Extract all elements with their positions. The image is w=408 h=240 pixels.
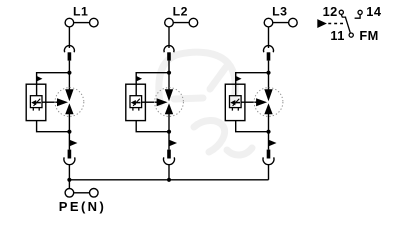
spark gap left arrow L1 [57, 98, 68, 106]
wire L1 top [68, 27, 70, 48]
wire from disconnect box bottom L3 [236, 121, 269, 132]
thermal disconnect inner box L2 [130, 96, 142, 108]
spark gap bottom arrow L2 [165, 103, 173, 114]
node junction L1 upper [67, 71, 71, 75]
release indicator flag L2 [169, 140, 176, 146]
disconnector actuation flag L1 [37, 76, 42, 81]
wire L2 below arrester [168, 114, 170, 150]
wire L1 below arrester [68, 114, 70, 150]
contact 12 hook [341, 15, 346, 18]
wire L1 to arrester [68, 61, 70, 90]
disconnector actuation flag L2 [136, 76, 141, 81]
wire branch L1 to disconnector [37, 73, 70, 85]
plug pin bar L3 top [267, 52, 271, 60]
wire from disconnect box bottom L2 [136, 121, 169, 132]
plug pin bar L1 bottom [68, 150, 72, 159]
thermal disconnect outer box L1 [26, 84, 46, 120]
svg-text:12: 12 [323, 4, 338, 19]
plug socket arc L2 bottom [164, 157, 175, 164]
svg-text:11: 11 [330, 28, 344, 43]
thermal disconnect outer box L2 [126, 84, 146, 120]
plug socket arc L1 top [64, 46, 74, 53]
wire branch L3 to disconnector [236, 73, 269, 85]
plug socket arc L1 bottom [64, 157, 75, 164]
wire L1 to PE bus [68, 165, 70, 180]
FM remote-contact actuation arrow [317, 19, 327, 28]
wire from disconnect box bottom L1 [37, 121, 70, 132]
node junction L1 lower [67, 130, 71, 134]
spark gap left arrow L2 [157, 98, 168, 106]
contact 12 circle [339, 10, 343, 14]
terminal circles L2 [165, 18, 198, 27]
wire into disconnect box L1 [36, 84, 38, 96]
thermal disconnect outer box L3 [225, 84, 245, 120]
spark gap dashed circle L3 [254, 88, 283, 117]
terminal circles L1 [65, 18, 98, 27]
node junction L3 lower [266, 130, 270, 134]
wire into disconnect box L2 [135, 84, 137, 96]
svg-text:L2: L2 [173, 5, 188, 19]
svg-text:14: 14 [366, 4, 382, 19]
wire branch L2 to disconnector [136, 73, 169, 85]
inner box pins L1 [33, 108, 39, 111]
wire L2 top [168, 27, 170, 48]
wire L2 to PE bus [168, 165, 170, 180]
thermal disconnect inner box L1 [30, 96, 42, 108]
plug socket arc L3 bottom [263, 157, 274, 164]
wire PE drop [68, 180, 70, 189]
FM actuation dashed link [328, 23, 346, 25]
svg-text:PE(N): PE(N) [59, 199, 106, 214]
release indicator flag L1 [69, 140, 76, 146]
PE terminal circles [65, 189, 98, 198]
contact 11 circle [349, 33, 353, 37]
actuator link wire L3 [241, 101, 257, 103]
terminal circles L3 [264, 18, 297, 27]
changeover lever 11-12 [345, 17, 350, 33]
thermal switch symbol L3 [231, 99, 240, 106]
spark gap dashed circle L1 [55, 88, 84, 117]
watermark (decorative, not labelled further) [159, 52, 252, 155]
spark gap left arrow L3 [256, 98, 267, 106]
spark gap dashed circle L2 [155, 88, 184, 117]
wire L3 below arrester [268, 114, 270, 150]
wire L2 to arrester [168, 61, 170, 90]
node junction L2/PE [167, 178, 171, 182]
contact 14 circle [358, 10, 362, 14]
actuator link wire L1 [42, 101, 58, 103]
node junction L3 upper [266, 71, 270, 75]
thermal switch symbol L1 [32, 99, 41, 106]
plug pin bar L2 top [167, 52, 171, 60]
thermal switch symbol L2 [131, 99, 140, 106]
release indicator flag L3 [269, 140, 276, 146]
wire L3 to arrester [268, 61, 270, 90]
node junction L2 upper [167, 71, 171, 75]
svg-text:L3: L3 [272, 5, 287, 19]
plug pin bar L1 top [68, 52, 72, 60]
actuator link wire L2 [142, 101, 158, 103]
PE bus wire [69, 179, 268, 181]
inner box pins L2 [133, 108, 139, 111]
wire into disconnect box L3 [235, 84, 237, 96]
wire L3 top [268, 27, 270, 48]
node junction L1/PE [67, 178, 71, 182]
plug pin bar L2 bottom [167, 150, 171, 159]
svg-text:FM: FM [359, 28, 378, 43]
wire L3 to PE bus [268, 165, 270, 180]
svg-text:L1: L1 [73, 5, 88, 19]
disconnector actuation flag L3 [236, 76, 241, 81]
spark gap bottom arrow L3 [264, 103, 272, 114]
spark gap top arrow L3 [264, 89, 272, 101]
contact 14 hook [355, 15, 361, 19]
inner box pins L3 [232, 108, 238, 111]
plug pin bar L3 bottom [267, 150, 271, 159]
node junction L2 lower [167, 130, 171, 134]
spark gap top arrow L2 [165, 89, 173, 101]
plug socket arc L3 top [264, 46, 274, 53]
thermal disconnect inner box L3 [230, 96, 242, 108]
spark gap bottom arrow L1 [65, 103, 73, 114]
plug socket arc L2 top [164, 46, 174, 53]
spark gap top arrow L1 [65, 89, 73, 101]
